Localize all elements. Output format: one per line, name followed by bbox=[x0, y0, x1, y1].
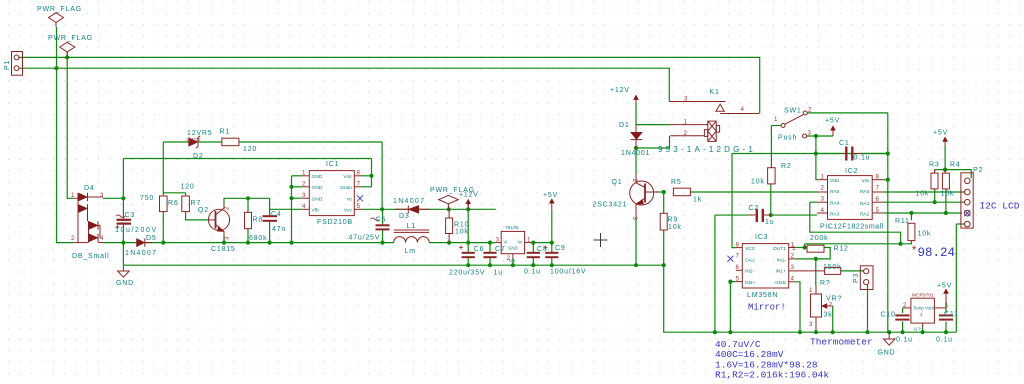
svg-text:+12V: +12V bbox=[459, 192, 479, 199]
svg-text:IN2+: IN2+ bbox=[745, 280, 756, 286]
svg-text:1N4007: 1N4007 bbox=[393, 198, 425, 205]
svg-text:1: 1 bbox=[792, 245, 796, 252]
svg-text:I2C LCD: I2C LCD bbox=[980, 201, 1020, 212]
svg-text:IC3: IC3 bbox=[755, 234, 768, 241]
svg-text:3: 3 bbox=[684, 96, 688, 103]
svg-text:Vo: Vo bbox=[517, 240, 523, 245]
svg-text:DB_Small: DB_Small bbox=[72, 253, 110, 260]
svg-text:+12V: +12V bbox=[610, 87, 630, 94]
svg-text:Vss: Vss bbox=[861, 178, 870, 184]
svg-text:120: 120 bbox=[243, 146, 257, 153]
svg-text:10u/200V: 10u/200V bbox=[115, 227, 158, 234]
svg-text:R1: R1 bbox=[220, 129, 231, 136]
svg-text:GND: GND bbox=[775, 280, 786, 286]
svg-text:LM358N: LM358N bbox=[747, 292, 778, 299]
svg-text:R3: R3 bbox=[929, 162, 940, 169]
svg-text:2: 2 bbox=[684, 130, 688, 137]
svg-text:2: 2 bbox=[821, 184, 825, 191]
svg-text:P2: P2 bbox=[973, 167, 983, 174]
svg-text:953-1A-12DG-1: 953-1A-12DG-1 bbox=[658, 145, 756, 154]
svg-text:D4: D4 bbox=[84, 185, 95, 192]
svg-text:Drain: Drain bbox=[340, 185, 352, 191]
svg-text:C4: C4 bbox=[271, 211, 282, 218]
svg-text:L1: L1 bbox=[407, 223, 416, 230]
svg-text:Vi: Vi bbox=[504, 240, 508, 245]
svg-text:D3: D3 bbox=[399, 213, 410, 220]
svg-text:10k: 10k bbox=[751, 179, 765, 186]
svg-text:Mirror!: Mirror! bbox=[748, 303, 786, 313]
svg-text:C3: C3 bbox=[125, 212, 136, 219]
svg-text:+5V: +5V bbox=[933, 130, 948, 137]
svg-text:GND: GND bbox=[878, 350, 896, 357]
svg-text:0.1u: 0.1u bbox=[896, 337, 913, 344]
svg-text:R10: R10 bbox=[454, 222, 469, 229]
svg-text:1u: 1u bbox=[494, 270, 503, 277]
svg-text:7: 7 bbox=[876, 184, 880, 191]
svg-text:47u/25V: 47u/25V bbox=[349, 235, 381, 242]
svg-text:4: 4 bbox=[821, 207, 825, 214]
svg-text:3: 3 bbox=[809, 321, 813, 328]
svg-text:Vfb: Vfb bbox=[312, 208, 320, 214]
svg-text:1N4001: 1N4001 bbox=[621, 150, 650, 157]
svg-text:P1: P1 bbox=[4, 60, 11, 70]
svg-text:680k: 680k bbox=[249, 235, 267, 242]
svg-text:PWR_FLAG: PWR_FLAG bbox=[37, 6, 82, 13]
svg-text:+5V: +5V bbox=[543, 192, 558, 199]
svg-text:R9: R9 bbox=[668, 217, 679, 224]
svg-text:PIC12F1822small: PIC12F1822small bbox=[820, 224, 884, 231]
svg-text:8: 8 bbox=[736, 241, 740, 248]
svg-text:1: 1 bbox=[71, 192, 75, 199]
svg-text:Push: Push bbox=[778, 135, 797, 142]
svg-text:R11: R11 bbox=[895, 218, 910, 225]
svg-text:Vdd: Vdd bbox=[830, 178, 839, 184]
svg-text:1u: 1u bbox=[765, 219, 774, 226]
svg-text:+5V: +5V bbox=[937, 283, 952, 290]
svg-text:Thermometer: Thermometer bbox=[810, 337, 873, 348]
svg-text:4: 4 bbox=[791, 275, 795, 282]
svg-text:6: 6 bbox=[876, 196, 880, 203]
svg-text:5: 5 bbox=[357, 203, 361, 210]
svg-text:D2: D2 bbox=[193, 153, 204, 160]
svg-text:Q1: Q1 bbox=[612, 179, 623, 186]
svg-text:R8: R8 bbox=[253, 217, 264, 224]
svg-text:C1: C1 bbox=[839, 140, 850, 147]
svg-text:VCC: VCC bbox=[745, 246, 756, 252]
svg-text:2: 2 bbox=[631, 179, 638, 183]
svg-text:3: 3 bbox=[808, 130, 812, 137]
svg-text:8: 8 bbox=[357, 170, 361, 177]
svg-text:0.1u: 0.1u bbox=[524, 269, 541, 276]
svg-text:+5V: +5V bbox=[825, 118, 840, 125]
svg-text:RA1: RA1 bbox=[860, 201, 870, 207]
svg-text:220u/35V: 220u/35V bbox=[449, 270, 485, 277]
svg-text:150k: 150k bbox=[823, 264, 841, 271]
svg-text:IN1-: IN1- bbox=[777, 257, 787, 263]
svg-text:GND: GND bbox=[312, 196, 323, 202]
svg-text:C7: C7 bbox=[495, 246, 506, 253]
svg-text:P3: P3 bbox=[853, 273, 860, 283]
svg-text:Vcc: Vcc bbox=[344, 208, 353, 214]
svg-text:3: 3 bbox=[302, 192, 306, 199]
svg-text:3: 3 bbox=[224, 236, 231, 240]
svg-text:750: 750 bbox=[140, 195, 154, 202]
svg-text:R2: R2 bbox=[781, 163, 792, 170]
svg-text:RA2: RA2 bbox=[860, 211, 870, 217]
svg-text:IN2-: IN2- bbox=[745, 269, 755, 275]
svg-text:R?: R? bbox=[820, 280, 831, 287]
svg-text:3: 3 bbox=[496, 236, 500, 243]
svg-text:3: 3 bbox=[821, 196, 825, 203]
svg-text:R7: R7 bbox=[191, 200, 202, 207]
svg-text:C1815: C1815 bbox=[211, 246, 236, 253]
svg-text:1: 1 bbox=[809, 287, 813, 294]
svg-text:R12: R12 bbox=[834, 246, 849, 253]
svg-text:8: 8 bbox=[876, 174, 880, 181]
svg-text:1: 1 bbox=[684, 119, 688, 126]
svg-text:R1,R2=2.016k:196.04k: R1,R2=2.016k:196.04k bbox=[715, 370, 829, 381]
svg-text:IC2: IC2 bbox=[845, 168, 858, 175]
svg-text:2: 2 bbox=[71, 235, 75, 242]
svg-text:C10: C10 bbox=[881, 312, 896, 319]
svg-text:GND: GND bbox=[116, 280, 134, 287]
svg-text:SW1: SW1 bbox=[784, 108, 802, 115]
svg-text:4: 4 bbox=[302, 203, 306, 210]
svg-text:MCP9701: MCP9701 bbox=[912, 293, 934, 299]
svg-text:C8: C8 bbox=[537, 246, 548, 253]
svg-text:R5: R5 bbox=[671, 179, 682, 186]
svg-text:RA3: RA3 bbox=[830, 211, 840, 217]
svg-text:200k: 200k bbox=[810, 235, 828, 242]
svg-text:D5: D5 bbox=[146, 235, 157, 242]
svg-text:1N4007: 1N4007 bbox=[125, 250, 157, 257]
svg-text:C11: C11 bbox=[944, 311, 959, 318]
svg-text:78L05: 78L05 bbox=[505, 225, 519, 231]
svg-text:0.1u: 0.1u bbox=[854, 155, 871, 162]
svg-text:IN1+: IN1+ bbox=[776, 269, 787, 275]
svg-text:FSD210B: FSD210B bbox=[317, 219, 353, 226]
svg-text:2: 2 bbox=[903, 302, 907, 309]
svg-text:C5: C5 bbox=[376, 217, 387, 224]
svg-text:GND: GND bbox=[508, 246, 518, 251]
svg-text:2: 2 bbox=[224, 206, 231, 210]
svg-text:R4: R4 bbox=[950, 162, 961, 169]
svg-text:R6: R6 bbox=[168, 200, 179, 207]
svg-text:4: 4 bbox=[100, 235, 104, 242]
svg-text:PWR_FLAG: PWR_FLAG bbox=[48, 35, 93, 42]
svg-text:120: 120 bbox=[181, 184, 195, 191]
svg-text:RA5: RA5 bbox=[830, 189, 840, 195]
svg-text:LL4742: LL4742 bbox=[187, 137, 202, 142]
svg-text:10k: 10k bbox=[941, 191, 955, 198]
svg-text:2: 2 bbox=[791, 253, 795, 260]
svg-text:C9: C9 bbox=[555, 245, 566, 252]
svg-text:C6: C6 bbox=[474, 246, 485, 253]
svg-text:5: 5 bbox=[876, 207, 880, 214]
svg-text:RA4: RA4 bbox=[830, 200, 840, 206]
svg-text:3: 3 bbox=[100, 192, 104, 199]
svg-text:4: 4 bbox=[741, 106, 745, 113]
svg-text:10k: 10k bbox=[916, 191, 930, 198]
svg-text:7: 7 bbox=[736, 253, 740, 260]
svg-text:RA0: RA0 bbox=[860, 189, 870, 195]
svg-text:Vstr: Vstr bbox=[343, 174, 352, 180]
svg-text:2: 2 bbox=[829, 302, 833, 309]
svg-text:2: 2 bbox=[507, 255, 511, 262]
svg-text:3k: 3k bbox=[824, 312, 833, 319]
svg-text:12VR5: 12VR5 bbox=[187, 130, 212, 137]
svg-text:OA2: OA2 bbox=[745, 257, 755, 263]
svg-text:D1: D1 bbox=[619, 122, 630, 129]
svg-text:7: 7 bbox=[357, 181, 361, 188]
svg-text:K1: K1 bbox=[710, 89, 720, 96]
svg-text:3: 3 bbox=[791, 264, 795, 271]
svg-text:Q2: Q2 bbox=[198, 207, 209, 214]
svg-text:IC1: IC1 bbox=[326, 161, 339, 168]
svg-text:6: 6 bbox=[736, 264, 740, 271]
svg-text:Temp Vout: Temp Vout bbox=[913, 306, 935, 311]
svg-text:1k: 1k bbox=[693, 197, 702, 204]
svg-text:OUT1: OUT1 bbox=[773, 246, 786, 252]
svg-text:nc: nc bbox=[347, 197, 353, 202]
svg-text:GND: GND bbox=[312, 185, 323, 191]
svg-text:100u/16V: 100u/16V bbox=[550, 269, 586, 276]
svg-text:Lm: Lm bbox=[405, 248, 416, 255]
svg-text:2: 2 bbox=[808, 107, 812, 114]
svg-text:1: 1 bbox=[945, 302, 949, 309]
svg-text:GND: GND bbox=[312, 174, 323, 180]
svg-text:5: 5 bbox=[736, 275, 740, 282]
svg-text:U1: U1 bbox=[509, 258, 516, 264]
svg-text:10k: 10k bbox=[668, 224, 682, 231]
svg-text:0.1u: 0.1u bbox=[936, 337, 953, 344]
svg-text:2: 2 bbox=[302, 181, 306, 188]
svg-text:10k: 10k bbox=[918, 231, 932, 238]
svg-text:3: 3 bbox=[631, 217, 638, 221]
svg-text:1: 1 bbox=[302, 170, 306, 177]
svg-text:C2: C2 bbox=[749, 205, 760, 212]
svg-text:1: 1 bbox=[527, 236, 531, 243]
svg-text:10k: 10k bbox=[455, 229, 469, 236]
svg-text:2SC3421: 2SC3421 bbox=[593, 202, 628, 209]
svg-text:U?: U? bbox=[914, 327, 922, 333]
svg-text:1: 1 bbox=[774, 116, 778, 123]
svg-text:98.24: 98.24 bbox=[918, 246, 956, 260]
svg-text:47n: 47n bbox=[272, 226, 286, 233]
svg-text:1: 1 bbox=[821, 174, 825, 181]
